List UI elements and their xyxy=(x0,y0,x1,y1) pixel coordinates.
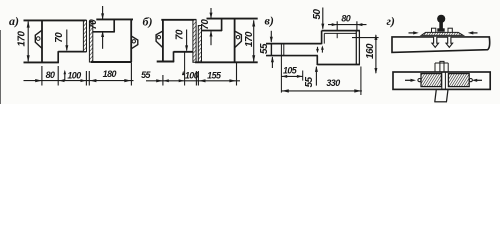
step wall fig b xyxy=(173,51,175,62)
left ear lug fig b xyxy=(156,31,163,48)
double ticks joint fig a xyxy=(85,71,87,86)
svg-text:50: 50 xyxy=(312,9,323,20)
small up arrow before 100 fig a xyxy=(64,72,66,81)
left ear lug fig a xyxy=(35,30,42,48)
dimension 70 right fig a : lower arrow xyxy=(102,32,104,49)
right ear lug fig a xyxy=(131,36,138,49)
dimension 50 fig v : arrow xyxy=(322,8,324,29)
pin through gap xyxy=(441,72,443,89)
long extension tick fig b xyxy=(184,53,186,86)
bottom plate xyxy=(393,72,490,89)
svg-text:160: 160 xyxy=(365,43,376,59)
left box left wall fig b xyxy=(162,20,164,62)
lead-in arrow 80 fig a xyxy=(35,79,42,82)
outer sleeve xyxy=(434,63,436,72)
slot extension tick fig v xyxy=(280,56,282,93)
hatched block left xyxy=(421,74,441,87)
arrows 100 fig a xyxy=(59,79,65,82)
left box left wall fig a xyxy=(41,20,43,62)
right box bottom edge fig b xyxy=(195,61,258,63)
arrows 180 fig a xyxy=(90,79,97,82)
tick x58.6 fig a xyxy=(57,66,59,86)
left box top edge fig a xyxy=(24,19,87,21)
step wall fig a xyxy=(57,51,59,63)
plate stepdown wall fig v xyxy=(316,56,318,66)
plate right wall double fig v xyxy=(355,31,357,65)
white arrow left through plate xyxy=(432,37,439,48)
hatched wall 1 fig b xyxy=(193,20,196,63)
bottom dimension line fig b xyxy=(146,80,240,82)
block ear right xyxy=(469,79,472,82)
thickness up arrow fig v xyxy=(321,47,323,52)
dimension 55 bottom fig v : arrow xyxy=(315,67,317,86)
svg-text:155: 155 xyxy=(207,70,222,80)
svg-text:55: 55 xyxy=(259,43,270,54)
dimension 70 right fig b : upper arrow xyxy=(210,8,212,18)
pocket wall fig b xyxy=(221,19,223,31)
svg-text:70: 70 xyxy=(88,19,99,30)
plate step wall fig v xyxy=(321,31,323,45)
svg-text:70: 70 xyxy=(54,32,65,43)
svg-text:б): б) xyxy=(143,15,153,29)
tick x42 fig a xyxy=(41,66,43,86)
left inward arrow top xyxy=(409,32,415,34)
slot hole fig v xyxy=(280,44,282,56)
block ear left xyxy=(418,79,421,82)
svg-text:80: 80 xyxy=(341,14,350,24)
cavity bottom fig a xyxy=(58,51,86,53)
right inward arrow top xyxy=(472,32,478,34)
svg-text:180: 180 xyxy=(103,69,117,79)
right inward arrow bottom xyxy=(476,79,482,81)
chaplet trapezoid hatched xyxy=(421,32,463,35)
bottom assembly: inner pin xyxy=(440,61,444,72)
svg-text:55: 55 xyxy=(141,70,151,80)
svg-text:170: 170 xyxy=(16,31,27,47)
lead-in arrow 55 fig b xyxy=(156,79,163,82)
pin below plate xyxy=(435,89,437,101)
dimension 80 fig v : line and arrows xyxy=(328,24,367,26)
plate top high surface fig v xyxy=(322,30,360,32)
dimension 70 right fig a : upper arrow xyxy=(102,6,104,19)
svg-text:105: 105 xyxy=(283,65,298,75)
cavity bottom fig b xyxy=(174,51,197,53)
right box right wall fig b xyxy=(234,19,236,63)
dimension 170 vertical line fig a xyxy=(27,22,29,62)
dimension 170 fig b : line xyxy=(253,20,255,61)
tick left wall fig b xyxy=(162,75,164,86)
svg-text:г): г) xyxy=(387,14,395,28)
pin flange xyxy=(437,28,444,31)
white arrow right through plate xyxy=(446,37,453,48)
dimension 70 left fig a : arrow xyxy=(66,30,68,51)
double ticks joint fig b xyxy=(195,71,197,86)
svg-text:100: 100 xyxy=(185,71,199,81)
plate left top surface fig v xyxy=(266,43,322,45)
top plate xyxy=(392,37,490,53)
hatched block right xyxy=(448,74,469,87)
dimension 330 fig v : line xyxy=(281,90,362,92)
hatched wall 2 fig a xyxy=(89,22,92,63)
left box bottom edge fig a xyxy=(24,61,59,63)
svg-text:в): в) xyxy=(265,14,274,28)
plate bottom surface fig v xyxy=(317,64,360,66)
pocket wall fig a xyxy=(113,19,115,32)
right extension tick fig b xyxy=(236,63,238,86)
svg-text:330: 330 xyxy=(326,78,340,88)
internal edge fig v xyxy=(336,33,338,38)
svg-text:80: 80 xyxy=(46,70,55,80)
right box right wall fig a xyxy=(130,19,132,62)
bottom dimension line fig a xyxy=(24,80,134,82)
left box bottom edge fig b xyxy=(157,61,175,63)
pocket floor fig a xyxy=(93,31,115,33)
right box top edge fig b xyxy=(207,18,258,20)
pin stem xyxy=(439,21,443,29)
left box top edge fig b xyxy=(161,19,196,21)
hatched wall 2 fig b xyxy=(198,26,201,63)
dimension 55 left fig v : arrows xyxy=(270,31,272,42)
right ear lug fig b xyxy=(235,31,242,48)
right box bottom edge fig a xyxy=(91,61,132,63)
dimension 70 left fig b : arrow xyxy=(186,30,188,51)
svg-text:55: 55 xyxy=(304,76,315,87)
right extension tick fig a xyxy=(130,63,132,86)
svg-text:70: 70 xyxy=(200,19,211,30)
right box top edge fig a xyxy=(96,18,133,20)
right extension tick fig v xyxy=(360,67,362,96)
svg-text:100: 100 xyxy=(67,70,81,80)
dimension 160 fig v : line xyxy=(375,35,377,73)
clip post left xyxy=(432,28,436,32)
svg-text:170: 170 xyxy=(244,31,255,47)
small up arrow before 100 fig b xyxy=(182,71,185,76)
arrows 100 fig b xyxy=(163,79,169,82)
svg-text:а): а) xyxy=(9,14,19,28)
dimension 105 fig v : line xyxy=(281,75,302,77)
scan edge artifact xyxy=(0,30,2,104)
plate left end wall fig v xyxy=(270,44,272,56)
hatched wall 1 fig a xyxy=(83,20,86,51)
left inward arrow bottom xyxy=(405,79,412,81)
svg-text:70: 70 xyxy=(175,29,186,40)
pocket floor fig b xyxy=(202,30,222,32)
thickness down arrow fig v xyxy=(317,47,319,52)
clip post right xyxy=(448,28,452,32)
plate inner step line fig v xyxy=(323,33,325,43)
arrows 155 fig b xyxy=(199,79,206,82)
dimension 70 right fig b : lower arrow xyxy=(210,31,212,45)
top assembly: pin head xyxy=(437,15,445,23)
dimension 160 fig v : top tick xyxy=(352,37,379,39)
plate bottom left surface fig v xyxy=(266,55,318,57)
